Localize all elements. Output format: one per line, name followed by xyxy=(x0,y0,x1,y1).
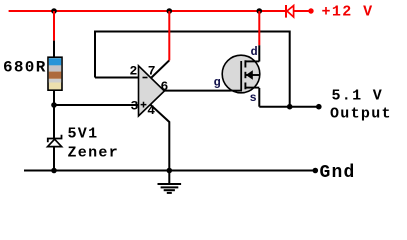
wire source to output xyxy=(259,106,319,108)
wire ground rail xyxy=(24,170,315,172)
svg-text:Gnd: Gnd xyxy=(320,163,356,183)
mosfet Q1 drain stub xyxy=(245,60,259,62)
resistor R1 body xyxy=(48,57,62,90)
diode D1 cathode bar xyxy=(285,5,287,18)
mosfet Q1 body stub xyxy=(245,74,259,76)
mosfet Q1 body circle xyxy=(222,55,260,93)
svg-text:680R: 680R xyxy=(3,59,47,77)
mosfet Q1 channel segment top xyxy=(244,60,246,67)
svg-text:s: s xyxy=(250,91,257,105)
svg-text:Zener: Zener xyxy=(68,145,120,162)
op-amp inverting input minus marker xyxy=(143,77,148,79)
junction output / feedback xyxy=(287,104,293,110)
wire resistor top lead xyxy=(53,41,55,58)
wire pin2 input xyxy=(95,77,139,79)
wire source trunk down xyxy=(258,88,260,107)
svg-text:5V1: 5V1 xyxy=(68,126,99,143)
diode D1 triangle xyxy=(287,6,294,17)
wire pin4 diagonal xyxy=(151,105,170,171)
svg-text:6: 6 xyxy=(161,79,169,94)
ground symbol stem xyxy=(168,171,170,185)
svg-text:2: 2 xyxy=(130,64,138,79)
ground symbol bars xyxy=(158,184,182,193)
wire drain black trunk xyxy=(258,45,260,61)
op-amp non-inverting input plus marker xyxy=(141,102,147,108)
svg-text:d: d xyxy=(251,45,258,59)
wire resistor bottom to zener xyxy=(53,90,55,139)
junction resistor/zener/pin3 node xyxy=(51,102,57,108)
wire pin3 input xyxy=(54,104,139,106)
junction top rail / mosfet drain branch xyxy=(257,8,263,14)
junction ground rail / pin4 and ground symbol xyxy=(167,168,173,174)
node +12V endpoint dot xyxy=(308,8,313,13)
svg-text:+12 V: +12 V xyxy=(322,4,374,21)
mosfet Q1 source stub xyxy=(245,87,259,89)
mosfet Q1 gate lead inside circle xyxy=(230,90,242,92)
zener D2 triangle xyxy=(48,139,62,146)
mosfet Q1 channel segment middle xyxy=(244,72,246,78)
mosfet Q1 gate bar xyxy=(240,61,242,91)
wire feedback loop xyxy=(95,32,290,107)
zener D2 cathode bar with ticks xyxy=(48,135,62,143)
junction top rail / opamp pin7 branch xyxy=(167,8,173,14)
wire +12V top rail left segment xyxy=(9,10,287,12)
wire pin7 diagonal xyxy=(152,60,170,77)
node output endpoint dot xyxy=(316,104,322,110)
svg-text:Output: Output xyxy=(330,106,392,123)
op-amp U1 triangle xyxy=(139,66,165,116)
wire +12V top rail right segment (after diode) xyxy=(294,10,312,12)
node Gnd endpoint dot xyxy=(313,168,319,174)
svg-text:5.1 V: 5.1 V xyxy=(332,88,384,105)
wire red stub to resistor xyxy=(53,11,55,41)
junction ground rail / zener xyxy=(51,168,57,174)
wire pin7 red to rail xyxy=(168,11,170,60)
svg-text:g: g xyxy=(214,76,221,90)
mosfet Q1 body arrow xyxy=(246,70,253,80)
wire pin6 output to gate xyxy=(164,90,230,92)
wire zener to ground rail xyxy=(53,147,55,171)
junction top rail / resistor branch xyxy=(51,8,57,14)
svg-text:3: 3 xyxy=(131,98,139,113)
mosfet Q1 channel segment bottom xyxy=(244,83,246,90)
wire drain red to rail xyxy=(258,11,260,45)
